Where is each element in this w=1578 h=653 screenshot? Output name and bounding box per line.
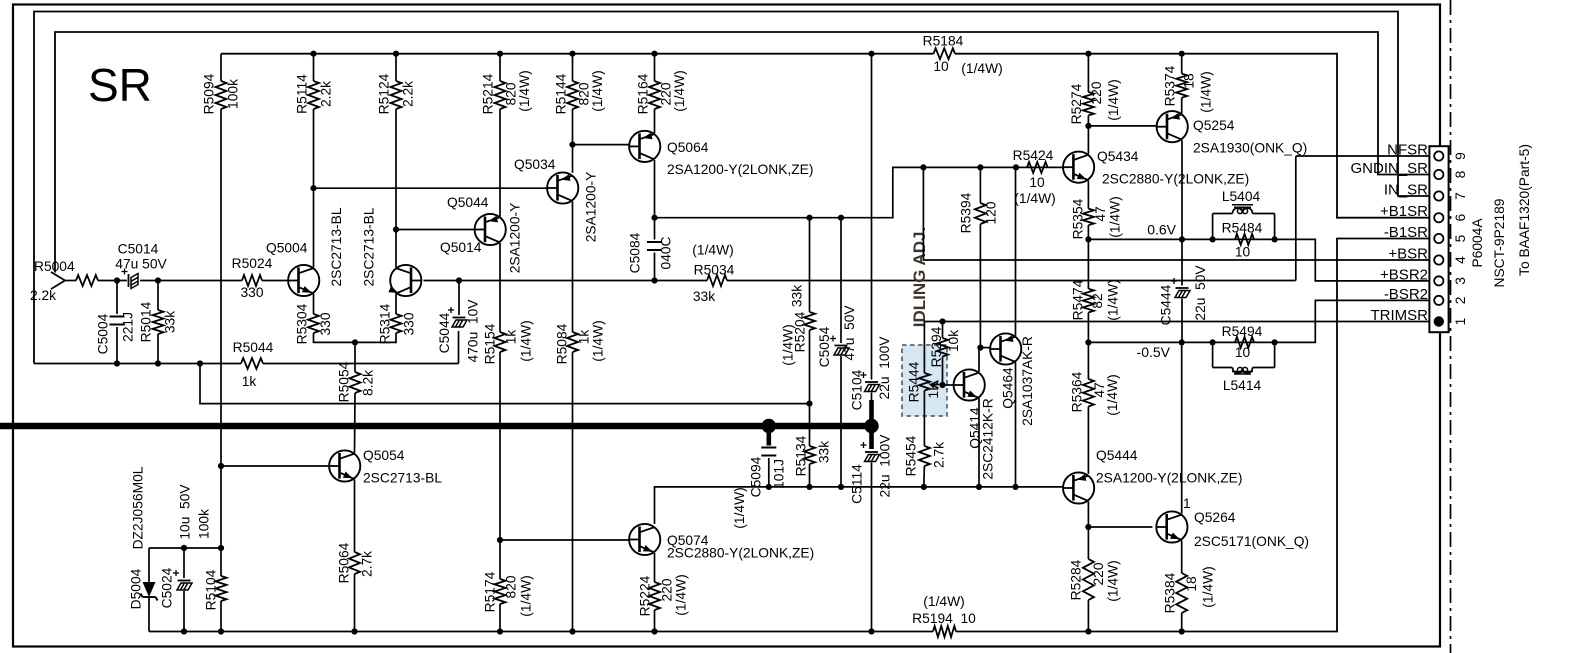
svg-text:18: 18 <box>1184 576 1199 592</box>
svg-text:R5294: R5294 <box>929 326 944 367</box>
svg-text:(1/4W): (1/4W) <box>961 61 1002 76</box>
svg-text:33k: 33k <box>163 311 178 333</box>
inductor L5414 <box>1212 342 1214 367</box>
svg-text:P6004A: P6004A <box>1470 218 1485 268</box>
resistor R5034 <box>707 275 727 286</box>
svg-text:L5414: L5414 <box>1223 378 1262 393</box>
transistor Q5004 <box>288 265 319 296</box>
svg-text:2SC2880-Y(2LONK,ZE): 2SC2880-Y(2LONK,ZE) <box>1102 172 1249 187</box>
svg-text:100k: 100k <box>226 79 241 109</box>
svg-text:2.2k: 2.2k <box>401 81 416 107</box>
svg-text:C5114: C5114 <box>850 464 865 504</box>
column R5214 / Q5044 <box>495 81 506 109</box>
wire Q5074 base <box>500 539 629 541</box>
wire Q5464 base <box>980 347 990 349</box>
svg-text:22u 100V: 22u 100V <box>878 434 893 498</box>
svg-text:Q5444: Q5444 <box>1096 448 1138 463</box>
svg-text:33k: 33k <box>817 441 832 463</box>
svg-text:9: 9 <box>1453 152 1468 160</box>
svg-text:+B1SR: +B1SR <box>1380 203 1428 220</box>
svg-text:C5044: C5044 <box>437 312 452 353</box>
capacitor C5054 column <box>840 218 842 343</box>
svg-text:330: 330 <box>402 312 417 335</box>
svg-text:22u 100V: 22u 100V <box>877 336 892 400</box>
svg-text:33k: 33k <box>790 285 805 307</box>
svg-text:R5064: R5064 <box>337 542 352 583</box>
resistor R5224 (Q5074 emitter) <box>654 553 656 582</box>
wire Q5054 base <box>221 465 329 467</box>
column Q5034 emitter / R5084 <box>572 202 574 333</box>
wire Q5034 base <box>314 187 547 189</box>
resistor R5444 (trimmer) <box>919 373 930 391</box>
svg-text:R5384: R5384 <box>1163 572 1178 613</box>
svg-text:2.7k: 2.7k <box>932 442 947 468</box>
svg-text:IN_SR: IN_SR <box>1384 182 1428 199</box>
svg-text:R5194 10: R5194 10 <box>912 611 976 626</box>
svg-text:2SC2713-BL: 2SC2713-BL <box>363 471 442 486</box>
svg-text:101J: 101J <box>772 459 787 489</box>
svg-text:Q5064: Q5064 <box>667 140 709 155</box>
svg-text:C5104: C5104 <box>850 369 865 410</box>
svg-text:22u 50V: 22u 50V <box>1193 265 1208 321</box>
svg-text:(1/4W): (1/4W) <box>1106 560 1121 601</box>
svg-text:2.2k: 2.2k <box>30 288 56 303</box>
svg-text:R5004: R5004 <box>34 259 75 274</box>
svg-text:R5454: R5454 <box>904 435 919 476</box>
svg-text:R5214: R5214 <box>481 73 496 114</box>
transistor Q5014 <box>390 265 421 296</box>
svg-text:GNDIN_SR: GNDIN_SR <box>1350 160 1428 177</box>
svg-text:2SC2713-BL: 2SC2713-BL <box>329 207 344 286</box>
resistor R5204 <box>809 218 811 312</box>
svg-text:R5484: R5484 <box>1222 221 1263 236</box>
transistor Q5264 <box>1156 511 1187 542</box>
pin 5 -B1SR <box>1434 234 1443 243</box>
wire Q5414 base <box>943 384 954 386</box>
svg-text:R5494: R5494 <box>1222 324 1263 339</box>
svg-text:NSCT-9P2189: NSCT-9P2189 <box>1492 198 1507 287</box>
pin 9 NFSR <box>1434 151 1443 160</box>
svg-text:R5114: R5114 <box>295 74 310 114</box>
svg-text:R5164: R5164 <box>636 73 651 114</box>
pin 1 TRIMSR <box>1434 316 1444 326</box>
svg-text:8: 8 <box>1453 170 1468 178</box>
svg-text:R5444: R5444 <box>907 361 922 402</box>
pin 4 +BSR <box>1434 255 1443 264</box>
svg-text:Q5464: Q5464 <box>1001 367 1016 409</box>
svg-text:2SC2713-BL: 2SC2713-BL <box>362 207 377 286</box>
TRIMSR wire <box>924 322 1434 374</box>
resistor R5304 (Q5004 emitter) <box>313 294 315 315</box>
svg-text:10: 10 <box>1029 175 1045 190</box>
resistor R5174 <box>499 540 501 579</box>
svg-text:R5014: R5014 <box>139 301 154 342</box>
svg-text:R5154: R5154 <box>483 323 498 364</box>
resistor R5424 <box>1027 162 1048 173</box>
thick output bus <box>0 423 877 429</box>
svg-text:R5144: R5144 <box>554 73 569 114</box>
wire Q5044 base <box>396 229 475 231</box>
svg-text:(1/4W): (1/4W) <box>1106 79 1121 120</box>
svg-text:R5124: R5124 <box>377 73 392 114</box>
resistor R5394 <box>975 203 986 224</box>
svg-text:8.2k: 8.2k <box>361 370 376 396</box>
Q5464 collector/emitter columns <box>1015 167 1017 335</box>
svg-text:10k: 10k <box>946 330 961 352</box>
svg-text:D5004: D5004 <box>129 568 144 609</box>
svg-text:33k: 33k <box>693 289 715 304</box>
svg-text:7: 7 <box>1453 192 1468 200</box>
wire branch y=403.6 <box>200 364 810 404</box>
svg-text:2SA1200-Y(2LONK,ZE): 2SA1200-Y(2LONK,ZE) <box>667 162 813 177</box>
svg-text:DZ2J056M0L: DZ2J056M0L <box>131 466 146 549</box>
svg-text:(1/4W): (1/4W) <box>1014 191 1055 206</box>
svg-text:R5304: R5304 <box>295 303 310 344</box>
Q5254 collector / C5444 column <box>1181 140 1183 239</box>
svg-text:Q5034: Q5034 <box>514 157 556 172</box>
board boundary dash-dot line <box>1450 0 1452 653</box>
svg-text:330: 330 <box>318 312 333 335</box>
svg-text:R5424: R5424 <box>1013 148 1054 163</box>
wire D5004/C5024 top <box>149 547 221 549</box>
svg-text:220: 220 <box>1089 81 1104 104</box>
svg-text:(1/4W): (1/4W) <box>674 574 689 615</box>
svg-text:IDLING ADJ.: IDLING ADJ. <box>910 227 929 327</box>
pin 2 -BSR2 <box>1434 296 1443 305</box>
Q5414 emitter <box>978 398 980 487</box>
svg-text:R5354: R5354 <box>1071 198 1086 239</box>
resistor R5054 <box>354 342 356 372</box>
wire: IN_SR loop (left x=55) <box>55 32 1434 273</box>
input arrow <box>51 272 65 289</box>
svg-text:Q5044: Q5044 <box>447 195 489 210</box>
svg-text:220: 220 <box>660 578 675 601</box>
svg-text:R5044: R5044 <box>233 340 274 355</box>
transistor Q5064 <box>629 131 660 162</box>
svg-text:+BSR2: +BSR2 <box>1380 266 1428 283</box>
-0.5V node wire <box>1085 339 1091 345</box>
resistor R5194 <box>933 626 956 637</box>
resistor R5274 <box>1087 54 1089 92</box>
svg-text:TRIMSR: TRIMSR <box>1371 307 1429 324</box>
column Q5044 collector / R5154 <box>499 243 501 332</box>
svg-text:C5094: C5094 <box>749 456 764 497</box>
resistor R5004 <box>76 275 98 286</box>
svg-text:SR: SR <box>88 59 152 111</box>
connector P6004A <box>1429 146 1448 332</box>
capacitor C5084 <box>654 218 656 240</box>
svg-text:C5024: C5024 <box>160 567 175 608</box>
feedback wire y=280.5 <box>424 280 460 282</box>
svg-text:(1/4W): (1/4W) <box>1106 279 1121 320</box>
svg-text:R5094: R5094 <box>202 73 217 114</box>
bus junction C5094 <box>762 419 776 433</box>
node tail <box>352 339 358 345</box>
svg-text:R5174: R5174 <box>483 571 498 612</box>
svg-text:Q5054: Q5054 <box>363 448 405 463</box>
resistor R5454 <box>919 446 930 466</box>
svg-text:2SA1200-Y: 2SA1200-Y <box>508 203 523 274</box>
svg-text:-BSR2: -BSR2 <box>1384 286 1428 303</box>
zener D5004 <box>148 548 150 582</box>
svg-text:(1/4W): (1/4W) <box>519 575 534 616</box>
svg-text:C5444: C5444 <box>1159 284 1174 325</box>
svg-text:(1/4W): (1/4W) <box>591 320 606 361</box>
svg-text:(1/4W): (1/4W) <box>517 70 532 111</box>
R5444 wiper arrow <box>931 384 943 386</box>
capacitor C5004 <box>116 281 118 315</box>
svg-text:040C: 040C <box>659 236 674 269</box>
svg-text:R5104: R5104 <box>204 569 219 610</box>
svg-text:L5404: L5404 <box>1222 189 1261 204</box>
capacitor C5444 <box>1181 239 1183 285</box>
svg-text:2SA1200-Y(2LONK,ZE): 2SA1200-Y(2LONK,ZE) <box>1096 471 1242 486</box>
resistor R5284 <box>1087 527 1089 559</box>
svg-text:1k: 1k <box>242 374 257 389</box>
svg-text:R5364: R5364 <box>1070 371 1085 412</box>
svg-text:2SC2880-Y(2LONK,ZE): 2SC2880-Y(2LONK,ZE) <box>667 546 814 561</box>
svg-text:C5084: C5084 <box>628 232 643 273</box>
capacitor C5094 <box>761 447 776 449</box>
svg-text:R5184: R5184 <box>923 34 964 49</box>
resistor R5354 (Q5434 emitter) <box>1087 181 1089 209</box>
column R5144 / Q5034 <box>567 81 578 109</box>
svg-text:330: 330 <box>240 285 263 300</box>
svg-text:10: 10 <box>1235 345 1251 360</box>
0.6V node wire <box>1085 236 1091 242</box>
svg-text:(1/4W): (1/4W) <box>1201 566 1216 607</box>
node Q5054 base / R5104 column <box>218 463 224 469</box>
resistor R5094 <box>216 81 227 109</box>
svg-text:R5284: R5284 <box>1069 559 1084 600</box>
wire Q5254 base <box>1088 125 1156 127</box>
resistor R5134 <box>809 404 811 446</box>
Q5414 collector column <box>978 348 980 372</box>
wire y=363.5 (input ground) <box>34 363 241 365</box>
svg-text:1: 1 <box>1453 318 1468 326</box>
svg-text:C5004: C5004 <box>96 313 111 354</box>
svg-text:10: 10 <box>1235 245 1251 260</box>
transistor Q5034 <box>547 172 578 203</box>
svg-text:1: 1 <box>1183 496 1191 511</box>
transistor Q5074 <box>629 524 660 555</box>
transistor Q5054 <box>329 450 360 481</box>
svg-text:4: 4 <box>1453 256 1468 264</box>
svg-text:2.2k: 2.2k <box>319 81 334 107</box>
svg-text:(1/4W): (1/4W) <box>923 594 964 609</box>
resistor R5294 <box>942 322 944 339</box>
drive line y=486.9 <box>655 487 1063 524</box>
svg-text:(1/4W): (1/4W) <box>590 70 605 111</box>
resistor R5374 <box>1181 54 1183 74</box>
svg-text:6: 6 <box>1453 214 1468 222</box>
svg-text:-B1SR: -B1SR <box>1384 224 1428 241</box>
svg-text:(1/4W): (1/4W) <box>519 320 534 361</box>
svg-text:18: 18 <box>1182 73 1197 89</box>
svg-text:2SA1930(ONK_Q): 2SA1930(ONK_Q) <box>1193 141 1307 156</box>
svg-text:R5084: R5084 <box>555 323 570 364</box>
svg-text:R5134: R5134 <box>794 435 809 476</box>
input wire y=280.5 <box>65 280 76 282</box>
svg-text:10u 50V: 10u 50V <box>178 484 193 540</box>
svg-text:C5054: C5054 <box>817 326 832 367</box>
svg-text:470u 10V: 470u 10V <box>466 299 481 363</box>
svg-text:Q5254: Q5254 <box>1193 118 1235 133</box>
svg-text:R5224: R5224 <box>638 575 653 616</box>
svg-text:-0.5V: -0.5V <box>1137 344 1171 360</box>
top rail y=53.7 to +B1SR <box>221 53 934 55</box>
svg-text:2: 2 <box>1453 297 1468 305</box>
resistor R5364 <box>1087 342 1089 379</box>
svg-text:R5024: R5024 <box>232 256 273 271</box>
transistor Q5254 <box>1157 111 1188 142</box>
svg-text:(1/4W): (1/4W) <box>732 487 747 528</box>
svg-text:R5474: R5474 <box>1071 279 1086 320</box>
svg-text:(1/4W): (1/4W) <box>672 70 687 111</box>
transistor Q5044 <box>475 214 506 245</box>
svg-text:(1/4W): (1/4W) <box>692 243 733 258</box>
svg-text:1k: 1k <box>577 330 592 345</box>
resistor R5044 <box>241 358 263 369</box>
resistor R5064 (Q5054 emitter) <box>354 480 356 553</box>
resistor R5014 <box>157 281 159 311</box>
capacitor C5044 <box>456 277 462 283</box>
capacitor C5024 <box>183 548 185 578</box>
svg-text:2.7k: 2.7k <box>360 551 375 577</box>
svg-text:47: 47 <box>1093 206 1108 221</box>
column R5164 / Q5064 <box>649 81 660 109</box>
resistor R5474 <box>1087 239 1089 288</box>
svg-text:R5274: R5274 <box>1069 83 1084 124</box>
svg-text:100k: 100k <box>197 509 212 539</box>
svg-text:820: 820 <box>504 575 519 598</box>
svg-text:47u 50V: 47u 50V <box>842 305 857 361</box>
svg-text:5: 5 <box>1453 234 1468 242</box>
pin 3 +BSR2 <box>1434 276 1443 285</box>
idling highlight box <box>902 345 947 416</box>
bus junction C5104/C5114 <box>864 419 878 433</box>
transistor Q5414 <box>954 369 985 400</box>
svg-text:R5374: R5374 <box>1163 65 1178 106</box>
capacitor C5114 <box>865 451 878 453</box>
wire Q5064 base <box>573 144 630 146</box>
svg-text:2SC2412K-R: 2SC2412K-R <box>981 398 996 479</box>
resistor R5384 (Q5264 emitter) <box>1181 540 1183 573</box>
svg-text:NFSR: NFSR <box>1387 142 1428 159</box>
svg-text:221J: 221J <box>121 312 136 342</box>
pin 8 GNDIN_SR <box>1434 170 1443 179</box>
pin 7 IN_SR <box>1434 191 1443 200</box>
+BSR wire <box>923 167 1434 260</box>
svg-text:1k: 1k <box>504 330 519 345</box>
Q5264 collector column <box>1181 342 1183 513</box>
svg-text:(1/4W): (1/4W) <box>781 324 796 365</box>
svg-text:82: 82 <box>1090 293 1105 308</box>
svg-text:0.6V: 0.6V <box>1147 222 1176 238</box>
svg-text:Q5264: Q5264 <box>1194 510 1236 525</box>
svg-text:C5014: C5014 <box>118 242 159 257</box>
svg-text:(1/4W): (1/4W) <box>1199 71 1214 112</box>
bottom wire y=631.5 / -B1SR riser <box>149 631 933 633</box>
resistor R5184 <box>934 48 956 59</box>
resistor R5024 <box>242 275 262 286</box>
resistor R5314 (Q5014 emitter) <box>395 294 397 315</box>
column R5114 / Q5004 collector <box>308 81 319 109</box>
svg-text:To BAAF1320(Part-5): To BAAF1320(Part-5) <box>1517 144 1532 276</box>
pin 6 +B1SR <box>1434 213 1443 222</box>
svg-text:R5034: R5034 <box>694 263 735 278</box>
transistor Q5434 <box>1063 152 1094 183</box>
svg-text:R5394: R5394 <box>959 192 974 233</box>
svg-text:+BSR: +BSR <box>1388 246 1428 263</box>
svg-text:(1/4W): (1/4W) <box>1105 374 1120 415</box>
svg-text:3: 3 <box>1453 277 1468 285</box>
transistor Q5444 <box>1063 472 1094 503</box>
svg-text:R5314: R5314 <box>378 303 393 344</box>
capacitor C5104 <box>871 54 873 380</box>
Q5444 collector / Q5264 base <box>1087 502 1089 528</box>
svg-text:47u 50V: 47u 50V <box>115 257 167 272</box>
svg-text:Q5014: Q5014 <box>440 240 482 255</box>
svg-text:2SA1037AK-R: 2SA1037AK-R <box>1020 336 1035 426</box>
Q5064 collector node wire y=217.7 <box>654 160 656 218</box>
column R5124 / Q5014 collector <box>391 81 402 109</box>
svg-text:10: 10 <box>933 59 949 74</box>
resistor R5104 <box>216 576 227 601</box>
svg-text:120: 120 <box>984 201 999 224</box>
svg-text:220: 220 <box>1091 562 1106 585</box>
capacitor C5014 <box>128 274 130 287</box>
svg-text:Q5434: Q5434 <box>1097 149 1139 164</box>
svg-text:Q5004: Q5004 <box>266 241 308 256</box>
svg-text:2SA1200-Y: 2SA1200-Y <box>584 172 599 243</box>
svg-text:(1/4W): (1/4W) <box>1108 196 1123 237</box>
svg-text:2SC5171(ONK_Q): 2SC5171(ONK_Q) <box>1194 534 1309 549</box>
svg-text:R5054: R5054 <box>337 361 352 402</box>
transistor Q5464 <box>990 333 1021 364</box>
wire: GNDIN_SR loop (left x=34) <box>34 12 1434 364</box>
